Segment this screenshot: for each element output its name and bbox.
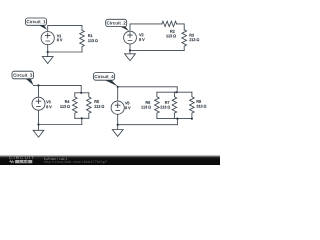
node C4 R8 bottom [191,118,193,120]
node C1 gnd [47,51,49,53]
resistor R7 [172,92,177,118]
logo CIRCUIT [9,156,34,159]
label R6 [146,101,150,104]
flag Circuit_2 [120,26,129,31]
wire C4 drop [176,119,178,125]
node C4 top [117,86,119,88]
ground C2 [125,50,136,60]
label R3 [190,34,194,37]
node C4 gnd [117,124,119,126]
wire C4 feed [176,87,178,92]
flag Circuit_1 [38,25,47,30]
label V5 value [125,106,130,109]
wire C2 bottom [130,49,184,51]
logo zigzag [9,161,14,163]
resistor R6 [155,92,160,118]
voltage source V2 [124,31,137,44]
node C2 gnd [129,49,131,51]
label V5 [125,102,129,105]
wire C3 return [39,124,82,126]
wire C2 top [130,24,162,31]
label V2 [139,33,143,36]
label R1 value [88,39,97,42]
wire C3 node to V3 [38,85,40,97]
wire C4 bottom rail [157,118,192,120]
resistor R2 [162,21,177,26]
wire C3 pair bottom rail [75,117,89,119]
label V2 value [139,38,144,41]
resistor R8 [190,92,195,118]
label R3 value [189,38,199,41]
label V1 [57,35,61,38]
node C4 drop [176,118,178,120]
wire C3 feed [80,85,82,92]
wire V2 bottom [129,44,131,50]
resistor R4 [73,93,78,119]
node C3 feed [80,92,82,94]
flag Circuit_3 [25,78,34,85]
node C3 flag [37,84,39,86]
label R4 [65,100,69,103]
flag Circuit_4 [104,80,118,87]
voltage source V3 [32,97,45,110]
node C3 pair bottom [81,117,83,119]
label R5 value [94,105,104,108]
label R4 value [60,105,69,108]
label R5 [95,100,99,103]
ground C1 [42,52,53,64]
logo LAB box [15,160,32,163]
voltage source V1 [41,31,54,44]
logo LAB [19,161,28,163]
wire C3 drop [81,118,83,124]
label R7 value [160,106,170,109]
footer url [44,161,107,164]
wire V1 bottom [47,45,49,52]
wire V3 bottom [38,110,40,124]
wire C1 top [48,25,82,31]
label R2 [170,30,174,33]
voltage source V5 [111,101,124,114]
label R8 value [197,105,207,108]
ground C3 [33,125,44,138]
label R1 [88,34,92,37]
label R8 [197,100,201,103]
resistor R5 [87,93,92,119]
wire C4 return [118,124,178,126]
node C3 gnd [37,123,39,125]
node C4 feed [175,91,177,93]
wire V5 bottom [117,114,119,124]
ground C4 [112,125,123,137]
label R7 [165,101,169,104]
wire C3 pair top rail [75,92,89,94]
footer title [44,158,67,160]
label V3 [46,101,50,104]
wire C4 rail2 [157,91,192,93]
label R2 value [166,35,175,38]
wire R2 to R3 [177,24,185,30]
label V3 value [46,105,51,108]
wire C4 top rail [118,87,178,101]
label R6 value [141,106,150,109]
resistor R3 [182,30,187,51]
wire C1 bottom [48,51,82,53]
label V1 value [57,39,62,42]
resistor R1 [80,30,85,52]
wire C3 flag rail [33,84,81,86]
